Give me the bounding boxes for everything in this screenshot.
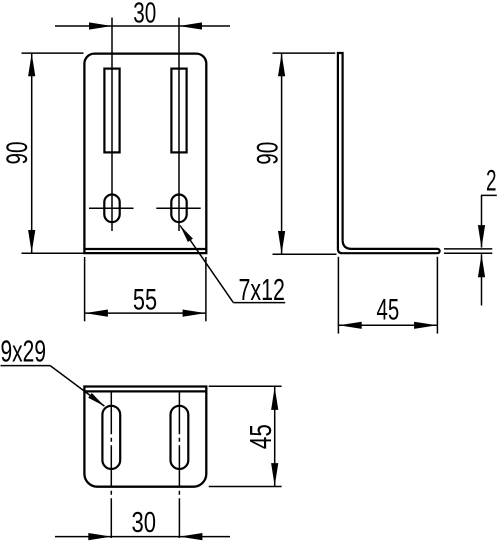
front view outline [84,54,206,254]
front view bend line [84,248,206,250]
dimension 30 top right arrow [179,22,202,29]
svg-text:9x29: 9x29 [1,334,47,369]
dimension 2 up arrow [478,254,485,277]
svg-text:45: 45 [377,294,400,327]
dimension 30 top line [55,25,230,27]
label 7x12 leader line [180,226,233,303]
front view left oblong hole 7x12 [104,195,119,223]
svg-text:45: 45 [243,424,278,449]
dimension 55 right arrow [183,310,206,317]
dimension 45 side line [338,324,437,326]
dimension 45 bottom top extension line [209,385,282,387]
dimension 90 front down arrow [28,230,35,253]
dimension 45 side left extension line [337,257,339,334]
label 7x12 leader arrow [180,226,193,243]
dimension 45 bottom line [274,387,276,486]
bottom view right centerline [178,392,180,538]
front view left slot [104,69,119,153]
dimension 90 front bottom extension line [22,252,84,254]
front view left vertical centerline [111,18,113,232]
dimension 90 front top extension line [22,52,84,54]
dimension 55 left extension line [84,257,86,321]
svg-text:90: 90 [252,142,285,165]
side view L profile outline [338,53,440,253]
front view right vertical centerline [178,18,180,232]
dimension 90 side text [252,142,285,165]
svg-text:7x12: 7x12 [239,272,285,307]
dimension 45 bottom down arrow [271,463,278,486]
front view right oblong hole 7x12 [171,195,186,223]
label 7x12 underline [233,302,285,304]
dimension 30 bottom line [55,536,230,538]
label 9x29 underline [1,365,51,367]
dimension 55 right extension line [205,257,207,321]
dimension 2 top extension line [444,248,492,250]
dimension 45 side right arrow [414,322,437,329]
dimension 30 bottom right arrow [179,533,202,540]
svg-text:55: 55 [133,284,157,317]
dimension 45 bottom bottom extension line [209,486,282,488]
front view left hole horizontal centerline [89,207,134,209]
front view right hole horizontal centerline [156,207,200,209]
bottom view bend line [84,390,206,392]
dimension 55 left arrow [85,310,108,317]
dimension 55 line [85,312,206,314]
dimension 45 side right extension line [436,257,438,334]
dimension 90 front text [1,142,34,165]
dimension 2 down arrow [478,225,485,248]
svg-text:30: 30 [133,0,156,29]
dimension 2 upper line [481,195,483,247]
bottom view left centerline [110,392,112,538]
dimension 2 underline [481,194,497,196]
dimension 30 bottom left arrow [88,533,111,540]
dimension 90 side up arrow [278,53,285,76]
dimension 90 front line [31,54,33,253]
dimension 90 side top extension line [273,52,336,54]
dimension 2 bottom extension line [444,252,492,254]
bottom view right slot 9x29 [171,406,189,469]
dimension 90 side bottom extension line [273,253,337,255]
dimension 2 lower line [481,254,483,305]
front view right slot [171,69,186,153]
dimension 90 front up arrow [28,53,35,76]
label 9x29 leader line [50,366,104,407]
svg-text:90: 90 [1,142,34,165]
bottom view outline [84,387,206,487]
label 9x29 leader arrow [88,393,104,406]
bottom view left slot 9x29 [102,406,120,469]
svg-text:30: 30 [132,507,157,539]
dimension 45 bottom up arrow [271,387,278,410]
dimension 90 side line [281,54,283,254]
dimension 45 bottom text [243,424,278,449]
dimension 90 side down arrow [278,231,285,254]
dimension 45 side left arrow [339,322,362,329]
svg-text:2: 2 [486,165,497,198]
dimension 30 top left arrow [89,22,112,29]
